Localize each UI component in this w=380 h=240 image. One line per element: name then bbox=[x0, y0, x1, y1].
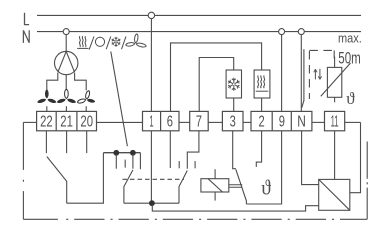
gang coupling dashed link bbox=[123, 178, 185, 180]
mode selector pointer wire bbox=[111, 52, 128, 147]
heat-cool switch arm bbox=[179, 171, 187, 204]
fan speed switch arm bbox=[47, 157, 67, 204]
wire motor to fan speed 2 bbox=[65, 75, 67, 91]
mode symbol heating bbox=[77, 36, 88, 48]
relay coil bottom lead bbox=[214, 192, 216, 201]
wire terminal 2 contact hook bbox=[256, 131, 261, 167]
junction dot bar left bbox=[113, 150, 119, 156]
mode separator slash 3 bbox=[122, 36, 127, 49]
wire heater to terminal 2 bbox=[261, 98, 263, 111]
terminal block 22 21 20 bbox=[37, 111, 97, 130]
wire L supply line bbox=[37, 14, 361, 16]
mode separator slash 2 bbox=[106, 36, 111, 49]
svg-text:ϑ: ϑ bbox=[346, 89, 355, 108]
relay switch arm bbox=[236, 169, 247, 204]
wire N to fan motor bbox=[65, 32, 67, 52]
node N label bbox=[23, 30, 29, 43]
wire L to terminal 1 bbox=[150, 19, 152, 112]
wire terminal 6 contact bbox=[169, 131, 171, 168]
wire lower rail to isolator bbox=[152, 205, 318, 212]
mode symbol fan (propeller outline) bbox=[126, 34, 146, 47]
relay coil box bbox=[201, 179, 229, 192]
svg-text:N: N bbox=[297, 114, 306, 131]
svg-text:6: 6 bbox=[167, 114, 173, 131]
terminal box 7 bbox=[190, 111, 209, 130]
fan motor M1 blades bbox=[58, 51, 75, 72]
wire right loop to isolator bbox=[350, 122, 361, 192]
relay actuator link bbox=[229, 185, 243, 188]
enclosure dash-dot border bottom bbox=[23, 218, 367, 220]
isolator diagonal bbox=[319, 179, 350, 210]
svg-text:11: 11 bbox=[331, 114, 339, 131]
junction dot bar right bbox=[130, 150, 136, 156]
terminal strip left entry bbox=[23, 121, 36, 123]
mode separator slash 1 bbox=[89, 36, 94, 49]
junction on N line (terminal N) bbox=[298, 29, 304, 35]
wire cooler to terminal 3 bbox=[233, 98, 235, 111]
wire motor to fan speed 3 bbox=[47, 73, 58, 90]
fan symbol speed 3 (all blades filled) bbox=[37, 89, 56, 103]
wire terminal 7 jog to contact bbox=[187, 131, 199, 169]
relay coil diagonal bbox=[208, 179, 223, 192]
fan motor M1 circle bbox=[54, 51, 77, 74]
fan selector bar right contact bbox=[139, 153, 141, 170]
wire link 6 to 7 bbox=[179, 121, 190, 123]
wire terminal 20 contact stub bbox=[86, 131, 88, 153]
junction dot common rail bbox=[149, 200, 155, 206]
sensor bottom lead bbox=[334, 97, 336, 102]
terminal box 11 bbox=[325, 111, 345, 130]
fan symbol speed 2 (top blade open) bbox=[57, 89, 76, 103]
junction on N line (motor) bbox=[63, 29, 69, 35]
terminal box 3 bbox=[222, 111, 243, 130]
heating valve inner line bbox=[256, 90, 269, 92]
wire fan3 to terminal 22 bbox=[46, 106, 48, 111]
wire terminal 3 down bbox=[233, 131, 236, 169]
enclosure dash-dot border left bbox=[22, 122, 24, 219]
mode switch arm bbox=[124, 170, 133, 203]
svg-text:2: 2 bbox=[259, 114, 265, 131]
contact stub left of 7 bbox=[178, 161, 180, 168]
wire terminal 21 contact stub bbox=[66, 131, 68, 153]
contact stub below right dot bbox=[132, 154, 134, 169]
junction on L line bbox=[148, 12, 154, 18]
heating valve waves bbox=[258, 75, 265, 88]
remote sensor NTC box bbox=[327, 67, 341, 97]
node L label bbox=[24, 13, 29, 25]
wire N supply line bbox=[37, 31, 361, 33]
mode symbol cooling (snowflake) bbox=[112, 37, 121, 47]
svg-text:20: 20 bbox=[80, 114, 93, 131]
sensor top lead bbox=[334, 57, 336, 68]
remote sensor dashed enclosure bbox=[309, 50, 334, 99]
junction on N line (terminal 9) bbox=[279, 29, 285, 35]
fan symbol speed 1 (two blades open) bbox=[78, 91, 96, 103]
wire terminal N to isolator bbox=[302, 131, 319, 185]
svg-text:50m: 50m bbox=[338, 49, 361, 67]
contact stub right of 7 bbox=[194, 161, 196, 168]
wire fan1 to terminal 20 bbox=[85, 106, 87, 111]
cooling valve box bbox=[226, 70, 241, 98]
wire rail to terminal 9 bbox=[246, 131, 281, 204]
contact stub below bar middle bbox=[124, 160, 126, 168]
wire motor to fan speed 1 bbox=[75, 73, 87, 91]
wire link 3 to 2 bbox=[243, 121, 251, 123]
wire link 20 to 1 bbox=[97, 121, 143, 123]
wire terminal 1 down bbox=[150, 131, 152, 203]
svg-text:9: 9 bbox=[279, 114, 285, 131]
wire arm to selector bar bbox=[67, 153, 104, 204]
wire bracket terminal 7 to cooler bbox=[199, 58, 234, 112]
svg-text:ϑ: ϑ bbox=[261, 176, 271, 200]
wire link N to 11 bbox=[312, 121, 325, 123]
heating valve box bbox=[254, 70, 270, 98]
svg-text:22: 22 bbox=[40, 114, 53, 131]
contact stub below left dot bbox=[115, 154, 117, 169]
svg-text:1: 1 bbox=[149, 114, 153, 131]
svg-text:max.: max. bbox=[338, 31, 362, 46]
sensor adjust arrows bbox=[314, 69, 322, 80]
svg-text:3: 3 bbox=[230, 114, 236, 131]
svg-text:7: 7 bbox=[196, 114, 202, 131]
wire N to terminal N bbox=[300, 35, 302, 112]
wire bracket terminal 6 to heater bbox=[171, 43, 262, 112]
wire terminal 22 contact stub bbox=[45, 131, 47, 153]
enclosure dash-dot border right bbox=[366, 142, 368, 220]
wire common rail left bbox=[124, 202, 179, 204]
fan selector bar bbox=[103, 152, 140, 154]
terminal block 1 6 bbox=[143, 111, 180, 130]
wire link 11 to right loop bbox=[345, 121, 361, 123]
relay coil top lead bbox=[214, 169, 216, 179]
terminal block 2 9 N bbox=[251, 111, 312, 130]
wire link 7 to 3 bbox=[208, 121, 222, 123]
wire fan2 to terminal 21 bbox=[65, 106, 67, 111]
mode symbol off (circle) bbox=[95, 37, 104, 46]
remote sensor NTC diagonal bbox=[321, 63, 351, 96]
isolator output box bbox=[319, 179, 350, 210]
sensor cable wire to terminal N bbox=[302, 49, 304, 107]
wire terminal 11 to isolator bbox=[334, 131, 336, 180]
svg-text:21: 21 bbox=[60, 114, 73, 131]
cooling valve snowflake bbox=[228, 78, 239, 91]
wire N to terminal 9 bbox=[281, 35, 283, 112]
